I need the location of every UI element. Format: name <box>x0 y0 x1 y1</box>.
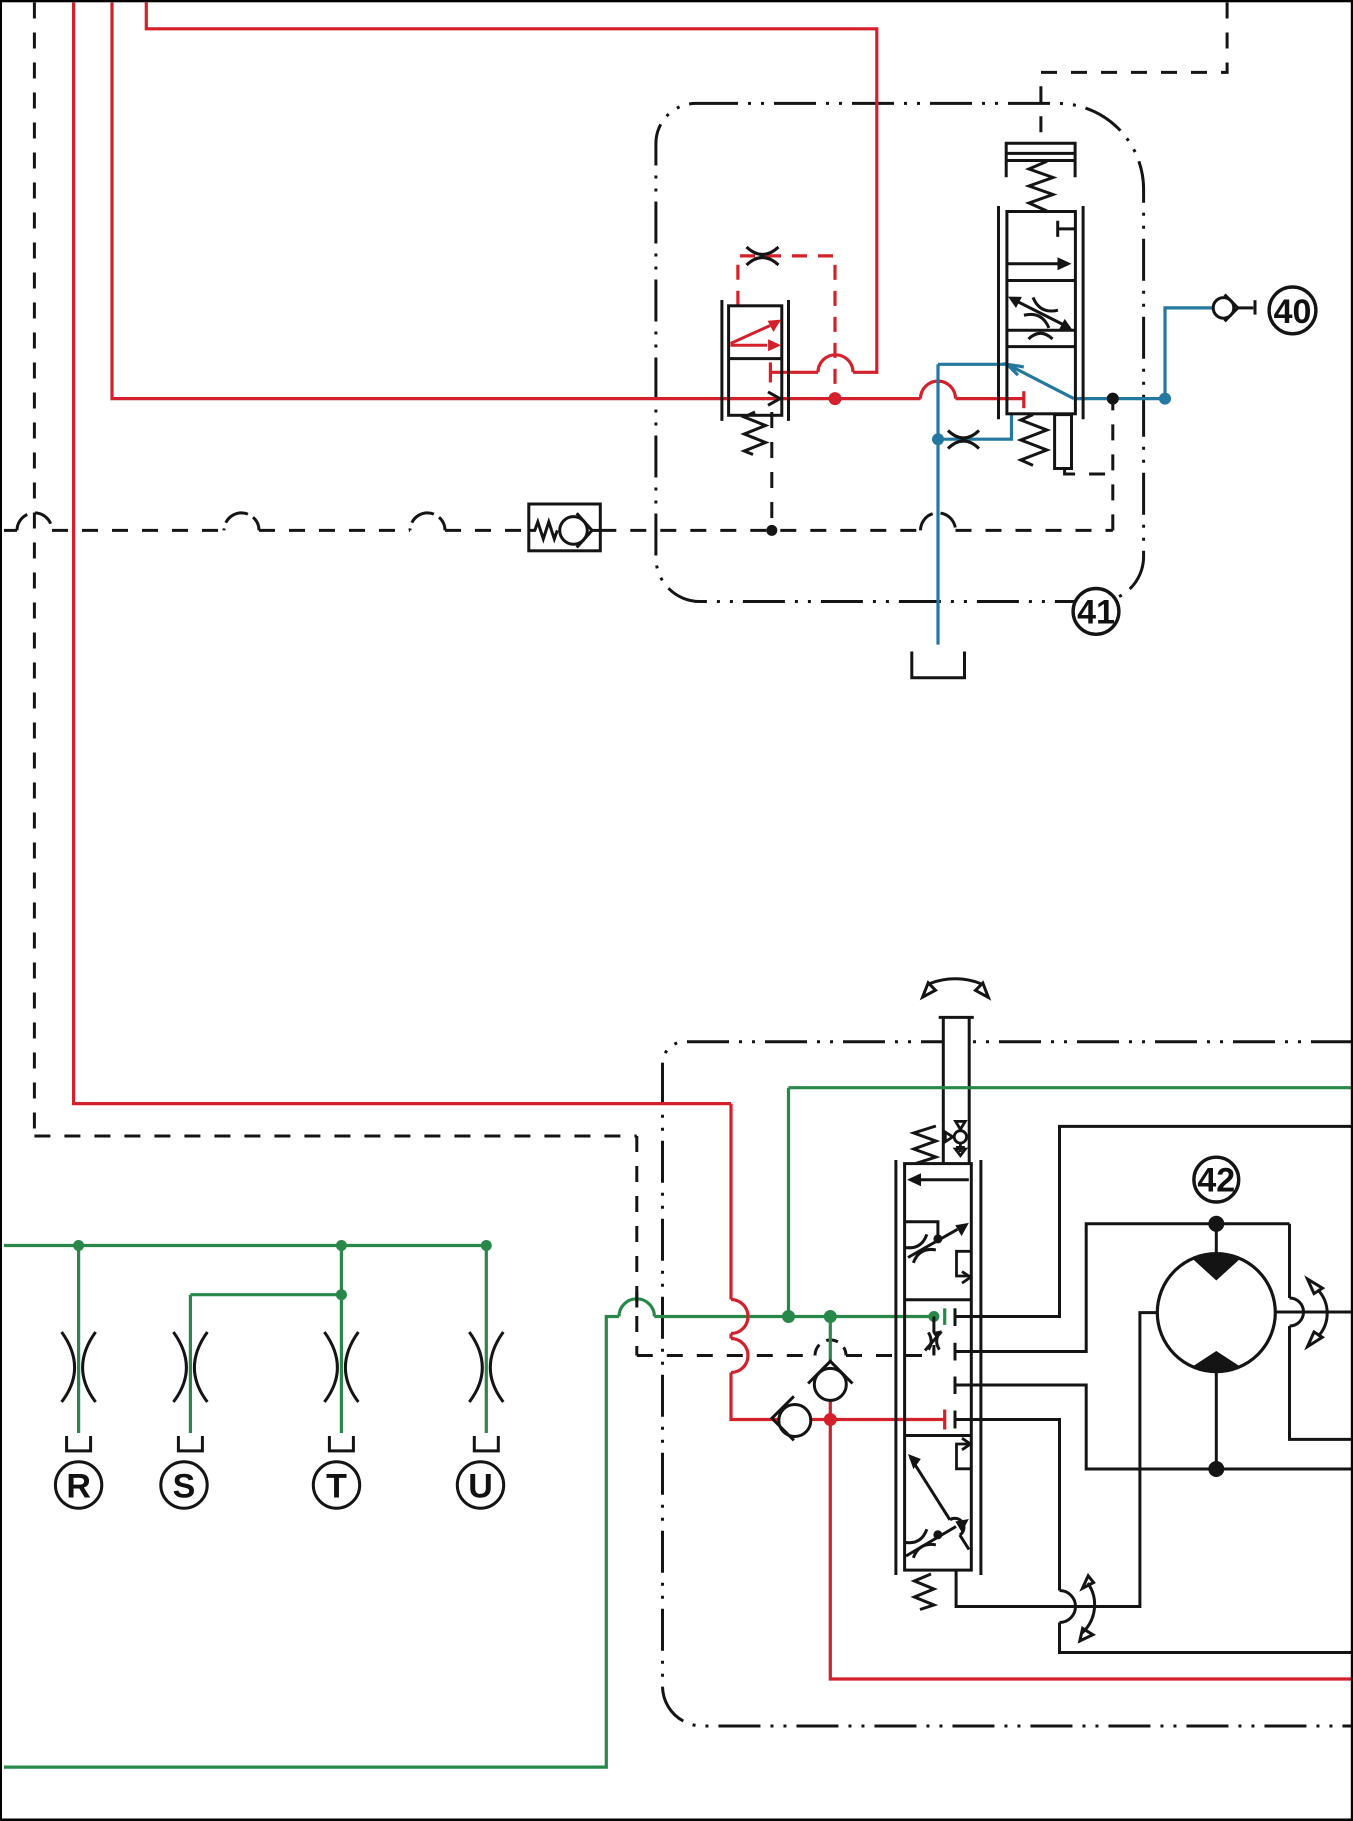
wire: green branch T <box>340 1246 343 1434</box>
flow arrow in middle section <box>1008 262 1058 265</box>
node: motor top junction dot <box>1208 1216 1224 1232</box>
node R label <box>55 1462 101 1508</box>
wire: red crossover arc over red pilot dashed <box>818 355 853 373</box>
wire: green branch S riser <box>190 1293 341 1296</box>
node: motor bottom junction dot <box>1208 1461 1224 1477</box>
wire: motor loop right side down <box>1288 1224 1291 1298</box>
swivel double arrow above stem <box>923 979 989 998</box>
arrowhead of blue pilot <box>1007 364 1024 375</box>
wire: work line A from valve 42 to upper right <box>955 1126 1353 1316</box>
wire: green supply top line to right edge <box>789 1086 1353 1089</box>
port bars of valve 42 <box>954 1308 957 1428</box>
wire: green branch to check valve <box>829 1317 832 1362</box>
port: red T-bar at valve 41 <box>1022 391 1025 408</box>
wire: pilot LS line after green crossover <box>846 1354 934 1357</box>
pressure reducing valve (inside block 41) <box>722 300 789 455</box>
node: green junction dots <box>73 1240 939 1323</box>
wire: blue tank line vertical <box>936 364 939 644</box>
svg-text:40: 40 <box>1274 293 1312 331</box>
node: red junction dot at valve 42 branch <box>824 1413 837 1426</box>
pilot cap of valve 41 <box>1006 143 1075 177</box>
wire: green branch S <box>189 1295 192 1433</box>
wire: motor shaft line <box>1275 1311 1353 1314</box>
wire: red branch down to bottom edge <box>830 1420 1353 1680</box>
wire: pilot line y531 segment d <box>445 529 529 532</box>
wire: green line from lower left <box>4 1317 619 1768</box>
anti-cavitation check valve lower (on red line) <box>772 1396 811 1440</box>
wire: pilot LS drop vertical <box>635 1136 638 1356</box>
wire: pilot branch from valve 41 plunger <box>1065 469 1113 475</box>
throttle arcs on compensator diagonal <box>1024 297 1058 328</box>
node: black junction dot pilot tap on blue line <box>1107 393 1119 405</box>
wire: blue riser to check valve 40 <box>1165 308 1213 399</box>
wire: pilot line y531 segment e <box>600 529 920 532</box>
wire: red supply line 1 from top <box>74 3 731 1104</box>
wire: red pilot dashed line of reducing valve <box>738 256 835 399</box>
wire: work line B from valve 42 to motor top <box>955 1224 1290 1352</box>
port bracket S <box>178 1436 202 1451</box>
wire: pilot line y531 segment a <box>4 529 17 532</box>
port bracket U <box>474 1436 498 1451</box>
wire: pilot line y531 segment b <box>52 529 224 532</box>
node: red junction dot on main line <box>829 392 842 405</box>
return spring below valve 42 <box>914 1574 934 1610</box>
wire: LS dashed crossover arc over green branch <box>815 1340 846 1356</box>
node U label <box>457 1462 503 1508</box>
node 42 label <box>1194 1157 1239 1202</box>
restrictor S <box>173 1332 186 1402</box>
node 41 label <box>1073 589 1119 635</box>
wire: red supply line 2 from top <box>112 3 921 399</box>
svg-text:41: 41 <box>1077 593 1115 631</box>
wire: red supply line 3 from top <box>146 3 877 373</box>
wire: pilot line y531 segment f <box>956 529 1113 532</box>
wire: green branch R <box>77 1246 80 1434</box>
bottom section pilot box symbol <box>957 1438 972 1469</box>
node: blue junction dot at corner <box>1159 393 1171 405</box>
enclosure 41 (dash-dot-dot boundary of valve block 41) <box>656 103 1144 601</box>
stem internal servo symbol <box>945 1121 966 1155</box>
wire: green supply drop to valve 42 <box>787 1088 790 1317</box>
wire: blue pilot from spool end <box>938 363 1007 366</box>
spring between cap and body <box>1029 161 1053 211</box>
anti-cavitation check valve upper (green to red) <box>808 1361 852 1400</box>
wire: pilot drain below reducing valve <box>770 412 773 530</box>
top section metering diagonal with adjustable throttle <box>904 1222 968 1263</box>
node: blue junction dot at restrictor branch <box>932 433 944 445</box>
tank symbol <box>912 652 965 678</box>
wire: crossover arc at x241 <box>224 513 259 531</box>
wire: pilot line y531 segment c <box>259 529 410 532</box>
enclosure 42 (dash-dot-dot boundary of valve block 42, open to right edge) <box>662 1042 1353 1726</box>
flow arrow through reducing valve bottom position <box>768 392 780 405</box>
spring of reducing valve <box>744 412 765 455</box>
wire: crossover arc over blue tank line <box>921 513 956 531</box>
spring below valve 41 body <box>1021 415 1072 469</box>
wire: work line D from valve 42 to lower right <box>955 1420 1060 1591</box>
svg-text:R: R <box>66 1468 91 1506</box>
wire: green crossover arc over pilot drop <box>619 1299 654 1317</box>
wire: blue branch through restrictor to spring chamber <box>938 414 1012 439</box>
rotation arrow at drain line <box>1082 1583 1095 1633</box>
wire: blue spool diagonal inside valve 41 <box>1007 364 1074 398</box>
hydraulic motor 42 <box>1157 1253 1275 1371</box>
LS port dashed T-bar <box>932 1345 935 1360</box>
LS throttle inside port section <box>925 1317 942 1356</box>
top section flow arrow (left) <box>920 1178 969 1181</box>
wire: crossover arc over motor shaft <box>1290 1298 1304 1326</box>
wire: green manifold line R-S-T-U <box>4 1244 486 1247</box>
svg-text:T: T <box>326 1468 347 1506</box>
wire: green line into valve 42 port <box>654 1315 934 1318</box>
restrictor R <box>62 1332 504 1451</box>
wire: pilot drain line left vertical <box>33 3 36 1137</box>
wire: pilot LS line to valve 42 <box>637 1354 815 1357</box>
restrictor on red pilot line <box>747 247 779 265</box>
node 40 label <box>1269 287 1316 334</box>
wire: top right pilot from border <box>1041 3 1227 144</box>
poppet ball of pilot check valve <box>560 517 588 545</box>
wire: red stub check valve to junction <box>829 1400 832 1419</box>
main spool valve of block 41 <box>999 143 1084 419</box>
single arc in narrow section <box>1029 333 1053 339</box>
wire: pilot drain line horizontal middle <box>34 1135 636 1138</box>
bottom section crossed metering diagonals <box>904 1454 969 1558</box>
wire: pilot dash crossing over green arc <box>635 1292 638 1308</box>
svg-text:U: U <box>468 1468 493 1506</box>
proportional directional valve 42 body <box>896 1126 981 1610</box>
restrictor on blue branch <box>948 431 979 449</box>
wire: crossover arc over drain line <box>1060 1591 1076 1623</box>
wire: red crossover arc over blue line <box>921 381 956 399</box>
compensator diagonal with double arrowheads <box>1008 297 1073 339</box>
wire: work line C from valve 42 to motor bottom <box>955 1385 1353 1469</box>
wire: blue line from valve 41 to junction <box>1074 397 1165 400</box>
port: red port T-bar at valve 42 <box>943 1410 946 1430</box>
pilot plunger below valve 41 <box>1055 415 1072 469</box>
port: green port T-bar at valve 42 <box>943 1308 946 1325</box>
wire: crossover arc at x427 <box>410 513 445 531</box>
wire: red crossover arc over LS dashed line <box>731 1339 748 1373</box>
check valve with spring (pilot line check) box <box>529 504 601 551</box>
node S label <box>161 1462 207 1508</box>
valve 42 actuating stem (lever shaft) <box>939 1017 974 1164</box>
proportional arrows of reducing valve <box>731 320 782 352</box>
svg-text:S: S <box>173 1468 196 1506</box>
port bracket R <box>67 1436 91 1451</box>
seat of pilot check valve <box>577 513 592 547</box>
restrictor U <box>469 1332 482 1402</box>
port: red T-bar at reducing valve outlet <box>769 362 772 382</box>
check valve 40 poppet <box>1213 295 1255 322</box>
wire: case drain from valve 42 bottom to motor casing <box>956 1313 1158 1607</box>
rotation arrow at motor shaft <box>1318 1290 1328 1337</box>
blocked port T in top section <box>1058 221 1076 237</box>
pilot box symbol top section <box>957 1251 972 1283</box>
wire: motor bottom port <box>1215 1371 1218 1469</box>
wire: crossover arc over left drain line <box>17 513 52 531</box>
restrictor T <box>324 1332 337 1402</box>
svg-text:42: 42 <box>1197 1162 1235 1200</box>
return spring above valve 42 <box>914 1126 936 1163</box>
spring of pilot check valve <box>529 522 558 539</box>
wire: motor top port <box>1215 1224 1218 1254</box>
node: junction dot pilot drain <box>766 525 777 536</box>
wire: red crossover arc over green line <box>731 1300 748 1334</box>
wire: pilot riser to blue junction <box>1111 399 1114 531</box>
wire: green branch U <box>485 1246 488 1434</box>
node T label <box>313 1462 359 1508</box>
port bracket T <box>329 1436 353 1451</box>
